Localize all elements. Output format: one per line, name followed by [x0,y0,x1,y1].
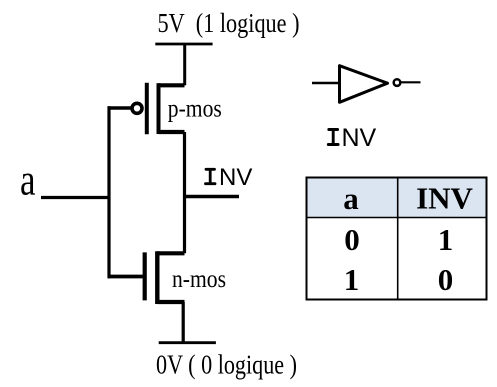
5V power rail [155,43,212,46]
inverter gate U1 bubble [394,79,401,86]
n-mos source lead [157,300,184,304]
svg-text:NV: NV [219,164,252,191]
n-mos drain lead [157,251,184,255]
table header separator [307,217,487,219]
inverter gate U1 output wire [401,81,421,83]
inverter gate U1 triangle [340,66,388,103]
svg-text:NV: NV [342,124,377,152]
inverter gate U1 input wire [312,82,341,85]
table outer border [307,178,487,300]
p-mos Q1 [132,83,185,135]
table header fill [307,178,487,218]
svg-text:1: 1 [344,262,360,297]
p-mos drain lead [159,130,185,134]
svg-text:5V (1 logique ): 5V (1 logique ) [158,8,300,38]
0V ground rail [159,341,216,344]
wire rail to p-mos source [183,44,186,85]
svg-text:n-mos: n-mos [172,264,226,293]
input vertical wire [107,106,110,278]
svg-text:a: a [20,155,36,204]
p-mos source lead [159,83,185,87]
truth table [307,178,487,300]
wire p-mos drain to n-mos drain (output column) [183,132,186,253]
svg-text:p-mos: p-mos [168,94,222,123]
svg-text:0: 0 [438,262,454,297]
svg-text:1: 1 [438,222,454,257]
wire input a [41,196,111,199]
p-mos gate bubble [132,103,142,113]
svg-text:0V ( 0 logique ): 0V ( 0 logique ) [156,348,297,379]
output node label INV [206,169,216,183]
output wire INV [185,195,240,198]
n-mos gate bar [143,252,147,300]
n-mos channel bar [155,251,159,304]
wire n-mos gate to input column [108,275,143,279]
svg-text:INV: INV [416,181,473,216]
inverter symbol label INV [328,130,338,145]
wire n-mos source to ground [182,302,185,343]
table column divider [397,178,399,300]
p-mos gate bar [145,83,149,135]
p-mos channel bar [157,83,161,134]
svg-text:0: 0 [344,222,360,257]
n-mos Q2 [145,251,185,304]
wire p-mos gate to input column [108,106,133,109]
svg-text:a: a [343,181,359,216]
